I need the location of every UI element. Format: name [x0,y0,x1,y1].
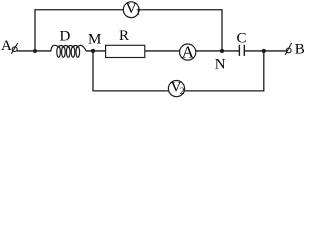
wire: capacitor to B terminal [245,50,286,52]
terminal B (circle with slash) [286,48,291,53]
svg-text:A: A [182,42,195,61]
voltmeter V1 (top) [123,2,139,18]
voltmeter V2 (bottom) [168,81,184,97]
svg-text:C: C [237,30,247,46]
inductor D (coil) [51,45,86,51]
svg-text:R: R [119,28,129,44]
wire: bottom branch from node M down, across bottom, up to node after C [93,51,264,91]
wire: A terminal to inductor [17,50,51,52]
svg-text:2: 2 [180,86,185,96]
terminal A (circle with slash) [12,47,17,52]
svg-text:D: D [60,29,71,45]
svg-text:A: A [1,38,12,54]
svg-text:N: N [215,56,226,72]
capacitor C (two plates) [238,45,240,56]
node after capacitor (junction dot) [262,49,266,53]
wire: top branch from junction above A up, across top, down to node N [35,10,222,51]
svg-text:1: 1 [136,7,141,17]
wire: resistor to capacitor (through ammeter and node N) [145,50,239,52]
node junction dot left (above A) [33,49,37,53]
node M (junction dot) [91,49,95,53]
wire: inductor to resistor (through node M) [86,50,106,52]
svg-text:M: M [88,32,101,48]
svg-text:B: B [295,41,305,57]
resistor R (rectangle) [106,45,145,57]
node N (junction dot) [220,49,224,53]
ammeter A1 (circle meter) [180,44,196,60]
